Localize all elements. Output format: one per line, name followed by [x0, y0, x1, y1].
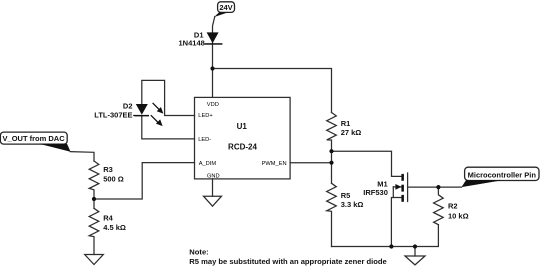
svg-text:V_OUT from DAC: V_OUT from DAC: [3, 134, 66, 143]
svg-text:VDD: VDD: [207, 102, 219, 108]
svg-text:IRF530: IRF530: [363, 188, 388, 197]
svg-text:LED+: LED+: [198, 113, 213, 119]
svg-text:27 kΩ: 27 kΩ: [341, 128, 362, 137]
svg-text:LED-: LED-: [198, 137, 211, 143]
svg-text:R3: R3: [103, 165, 113, 174]
svg-text:U1: U1: [237, 122, 248, 131]
svg-text:R5 may be substituted with an: R5 may be substituted with an appropriat…: [189, 257, 386, 266]
svg-text:1N4148: 1N4148: [179, 39, 205, 48]
svg-text:R4: R4: [103, 214, 113, 223]
svg-text:A_DIM: A_DIM: [199, 161, 217, 167]
svg-text:Note:: Note:: [189, 248, 208, 257]
svg-text:PWM_EN: PWM_EN: [262, 161, 287, 167]
svg-text:GND: GND: [207, 174, 220, 180]
svg-text:R1: R1: [341, 119, 351, 128]
svg-text:10 kΩ: 10 kΩ: [448, 212, 469, 221]
svg-text:R2: R2: [448, 202, 458, 211]
svg-text:D2: D2: [123, 102, 133, 111]
svg-text:Microcontroller Pin: Microcontroller Pin: [468, 170, 537, 179]
svg-text:3.3 kΩ: 3.3 kΩ: [341, 200, 364, 209]
svg-text:24V: 24V: [219, 3, 232, 12]
svg-text:500 Ω: 500 Ω: [103, 175, 124, 184]
svg-text:LTL-307EE: LTL-307EE: [94, 111, 132, 120]
svg-text:RCD-24: RCD-24: [228, 143, 257, 152]
svg-text:4.5 kΩ: 4.5 kΩ: [103, 223, 126, 232]
svg-text:R5: R5: [341, 191, 351, 200]
